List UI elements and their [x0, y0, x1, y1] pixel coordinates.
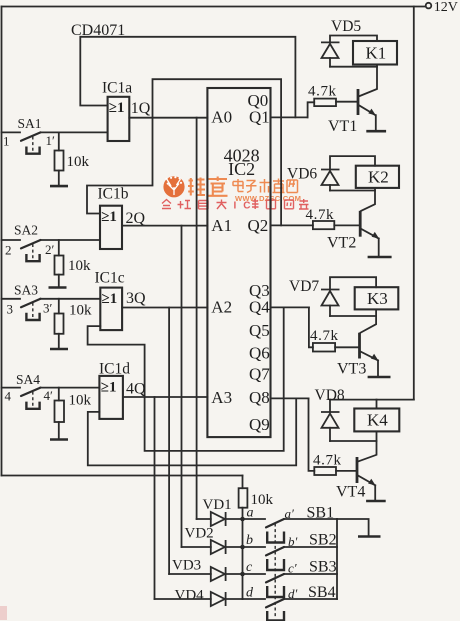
svg-text:VD4: VD4 [175, 588, 205, 604]
svg-text:4Q: 4Q [126, 381, 146, 398]
ground VT2 [368, 256, 392, 259]
resistor R2 10k [58, 240, 60, 286]
svg-text:A0: A0 [211, 108, 232, 127]
wire VD6 anode to collector node [330, 190, 375, 192]
svg-text:Q4: Q4 [249, 298, 270, 317]
svg-text:IC2: IC2 [228, 159, 255, 179]
pin Q1 stub [271, 116, 308, 118]
svg-text:10k: 10k [69, 303, 92, 319]
svg-text:3Q: 3Q [126, 290, 146, 307]
svg-text:d′: d′ [288, 586, 298, 601]
node column a-b-c-d [242, 508, 244, 599]
svg-text:10k: 10k [68, 258, 91, 274]
switch SA3 [2, 283, 101, 321]
wire: 4Q junction down to diode row d [154, 397, 156, 599]
relay block 3 [289, 277, 398, 377]
wire rail to K4 top node [330, 399, 414, 401]
switch SB2 [243, 532, 338, 571]
switch SA1 [2, 116, 108, 154]
svg-text:SB1: SB1 [307, 505, 335, 522]
wire Q8 to 4.7k VT4 [309, 398, 315, 471]
svg-text:≥1: ≥1 [101, 380, 117, 396]
svg-text:Q7: Q7 [249, 365, 270, 384]
or-gate IC1b [98, 186, 146, 250]
svg-text:IC1b: IC1b [98, 186, 129, 203]
svg-text:2′: 2′ [45, 242, 55, 257]
svg-text:A2: A2 [211, 298, 232, 317]
svg-text:K4: K4 [367, 411, 388, 430]
svg-text:≥1: ≥1 [109, 100, 125, 116]
svg-text:Q6: Q6 [249, 344, 270, 363]
ground SA2 [49, 286, 67, 289]
diode VD4 row d [155, 588, 243, 607]
watermark red row quan-qiu-zui-da-IC-cai-gou-wang-zhan [162, 200, 227, 210]
12V terminal [426, 3, 432, 9]
ground SA1 [50, 185, 68, 188]
svg-text:Q8: Q8 [249, 388, 270, 407]
svg-text:1′: 1′ [46, 133, 56, 148]
or-gate IC1a [102, 80, 151, 142]
switch SB1 [243, 505, 338, 543]
ground SB [358, 535, 381, 538]
svg-text:A3: A3 [211, 388, 232, 407]
svg-text:4.7k: 4.7k [310, 328, 339, 344]
pin Q4 stub [271, 306, 309, 308]
wire: feedback Q1 to IC1a input (CD4071 line) [80, 37, 295, 118]
svg-text:Q1: Q1 [249, 108, 270, 127]
relay block 2 [287, 156, 399, 257]
diode VD1 row a [197, 497, 243, 526]
wire Q4 to 4.7k VT3 [309, 307, 313, 347]
svg-text:3: 3 [7, 302, 14, 317]
switch SB3 [243, 559, 338, 598]
left rail bottom run to 10k top [2, 475, 243, 477]
svg-text:VD2: VD2 [185, 526, 214, 542]
wire: 3Q output to A2 pin [122, 307, 207, 309]
wire VD8 anode to collector node [330, 440, 377, 442]
ground VT1 [366, 130, 386, 133]
wire: 1Q junction down to diode row a [196, 118, 198, 519]
svg-text:IC: IC [234, 201, 258, 212]
svg-text:4.7k: 4.7k [308, 84, 337, 100]
svg-text:Q5: Q5 [249, 321, 270, 340]
svg-text:12V: 12V [434, 0, 458, 15]
svg-text:SB3: SB3 [309, 559, 337, 576]
svg-text:SA1: SA1 [18, 116, 42, 131]
wire: 3Q junction down to diode row c [168, 308, 170, 575]
svg-text:1: 1 [3, 134, 10, 149]
node a [240, 517, 245, 522]
ground SA4 [50, 438, 68, 441]
+12V top rail [2, 6, 426, 8]
svg-text:1Q: 1Q [131, 100, 151, 117]
ground SA3 [50, 348, 68, 351]
ground VT4 [366, 500, 386, 503]
svg-text:Q9: Q9 [249, 415, 270, 434]
wire VD5 anode to collector node [330, 66, 377, 68]
left rail [1, 7, 3, 476]
pin Q2 stub [271, 224, 313, 226]
switch SA2 [2, 223, 101, 262]
svg-text:b: b [246, 533, 253, 548]
relay block 1 [308, 18, 397, 135]
svg-text:IC1a: IC1a [102, 80, 132, 97]
wire VD7 anode to collector node [330, 315, 376, 317]
or-gate IC1c [95, 270, 147, 331]
svg-text:4: 4 [5, 389, 12, 404]
wire: feedback Q2 to IC1b input [87, 79, 281, 225]
transistor VT4 [358, 431, 377, 461]
svg-text:a′: a′ [285, 506, 295, 521]
wire: 4Q output to A3 pin [123, 396, 207, 398]
svg-text:SA3: SA3 [14, 283, 38, 298]
IC2 box [207, 88, 270, 437]
svg-text:Q2: Q2 [248, 216, 269, 235]
wire Q1 to 4.7k VT1 [308, 102, 315, 117]
diode VD2 row b [182, 526, 243, 555]
relay block 4 [313, 387, 414, 501]
svg-text:K1: K1 [366, 44, 387, 63]
svg-text:4′: 4′ [44, 388, 54, 403]
svg-text:2: 2 [5, 243, 12, 258]
svg-text:VT1: VT1 [328, 118, 357, 135]
wire: feedback Q8 to IC1d input [88, 398, 296, 465]
wire SB commons to ground [336, 519, 338, 599]
svg-text:K2: K2 [368, 168, 389, 187]
wire: 2Q output to A1 pin [122, 225, 207, 227]
transistor VT3 [361, 309, 377, 332]
ground VT3 [368, 376, 391, 379]
svg-text:VT3: VT3 [337, 361, 366, 378]
node b [240, 545, 245, 550]
svg-text:A1: A1 [211, 216, 232, 235]
svg-text:SB2: SB2 [309, 532, 337, 549]
watermark mid text dian-zi-shi-chang-wang [233, 179, 298, 193]
resistor R3 10k [58, 299, 60, 348]
svg-text:≥1: ≥1 [101, 209, 117, 225]
watermark big text wei-ku [188, 177, 228, 196]
svg-text:SA4: SA4 [16, 372, 40, 387]
relay K1 [353, 41, 397, 65]
svg-text:K3: K3 [367, 289, 388, 308]
relay K2 [356, 166, 399, 188]
relay K3 [355, 287, 399, 309]
svg-text:c′: c′ [288, 561, 297, 576]
svg-text:VD1: VD1 [203, 497, 232, 513]
svg-text:VT4: VT4 [336, 484, 365, 501]
switch SB4 [243, 584, 338, 621]
resistor 10k pull-down bottom [242, 476, 244, 489]
switch SA4 [2, 372, 100, 409]
svg-text:≥1: ≥1 [102, 291, 118, 307]
svg-text:2Q: 2Q [126, 210, 146, 227]
svg-text:VD8: VD8 [315, 387, 345, 404]
pin Q8 stub [271, 397, 309, 399]
relay K4 [354, 409, 399, 432]
svg-text:VT2: VT2 [327, 235, 356, 252]
svg-text:10k: 10k [69, 393, 92, 409]
resistor R4 10k [58, 388, 60, 438]
svg-text:SA2: SA2 [14, 223, 38, 238]
svg-text:IC1c: IC1c [95, 270, 125, 287]
svg-text:VD3: VD3 [172, 558, 201, 574]
svg-text:VD5: VD5 [331, 18, 361, 35]
svg-text:3′: 3′ [43, 301, 53, 316]
scanner pink smudge [0, 606, 7, 620]
svg-text:VD6: VD6 [287, 166, 317, 183]
svg-text:10k: 10k [67, 154, 90, 170]
node c [240, 572, 245, 577]
wire: 1Q output to A0 pin [129, 117, 207, 119]
svg-text:b′: b′ [288, 534, 298, 549]
right +12V rail [413, 7, 415, 400]
or-gate IC1d [99, 361, 146, 419]
wire: feedback Q4 to IC1c input [88, 307, 284, 451]
transistor VT1 [359, 65, 377, 97]
watermark logo disc [163, 176, 184, 197]
svg-text:10k: 10k [251, 492, 274, 508]
dashed gang link SB1-SB4 [274, 524, 276, 619]
svg-text:SB4: SB4 [308, 584, 336, 601]
resistor R1 10k [58, 132, 60, 184]
diode VD3 row c [169, 558, 242, 582]
svg-text:c: c [246, 560, 253, 575]
transistor VT2 [361, 188, 375, 211]
wire: 2Q junction down to diode row b [181, 226, 183, 547]
svg-text:VD7: VD7 [289, 278, 319, 295]
